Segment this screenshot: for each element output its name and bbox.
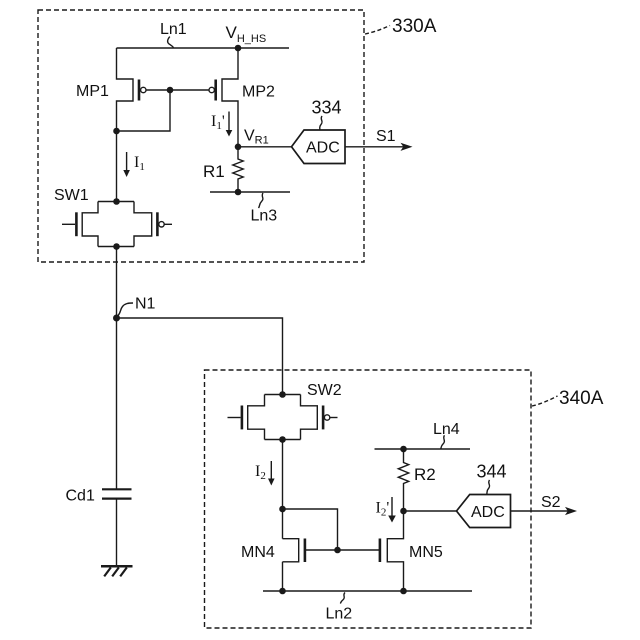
transistor MP1 source/drain xyxy=(117,48,134,131)
svg-text:R2: R2 xyxy=(414,465,436,484)
wire SW2 right gate lead xyxy=(330,417,338,419)
wire MN4-MN5 gate xyxy=(305,549,380,551)
svg-text:344: 344 xyxy=(477,462,507,482)
svg-text:VH_HS: VH_HS xyxy=(226,23,267,45)
current arrow I2' xyxy=(388,497,396,523)
svg-text:S1: S1 xyxy=(376,128,396,145)
node R1 to Ln3 junction xyxy=(235,189,240,194)
leader to Ln1 xyxy=(168,37,174,48)
switch SW1 body xyxy=(82,202,152,247)
node SW2 top junction xyxy=(280,392,285,397)
svg-text:SW2: SW2 xyxy=(307,382,342,399)
switch SW2 right gate bar xyxy=(322,406,325,430)
svg-text:340A: 340A xyxy=(559,388,604,409)
wire Ln1 bus xyxy=(117,47,290,49)
node V_H_HS junction xyxy=(235,45,240,50)
node N1 xyxy=(114,315,120,321)
leader to 340A label xyxy=(532,396,558,406)
svg-text:I1: I1 xyxy=(134,154,145,173)
wire Ln2 bus xyxy=(263,590,472,592)
resistor R1 xyxy=(233,147,243,192)
leader to 344 xyxy=(487,480,490,494)
node gate wire junction xyxy=(335,547,340,552)
transistor MP1 gate bar xyxy=(138,80,141,101)
wire MP1 drain to SW1 xyxy=(116,131,118,202)
transistor MN4 source/drain xyxy=(283,539,299,591)
transistor MP2 gate bar xyxy=(214,80,217,101)
transistor MP2 gate bubble xyxy=(209,87,214,92)
wire SW1 to node N1 xyxy=(116,247,118,319)
svg-text:Ln3: Ln3 xyxy=(251,208,278,225)
dashed block 330A xyxy=(38,10,364,262)
svg-text:ADC: ADC xyxy=(471,504,505,521)
svg-text:334: 334 xyxy=(312,98,342,118)
wire MP1 gate lead xyxy=(146,89,170,91)
wire SW1 right gate lead xyxy=(164,223,172,225)
wire SW1 left gate lead xyxy=(62,223,75,225)
svg-text:Ln4: Ln4 xyxy=(433,421,460,438)
switch SW2 body xyxy=(248,395,318,440)
ground xyxy=(101,566,133,576)
wire V_R1 to ADC xyxy=(238,146,292,148)
transistor MN4 gate bar xyxy=(304,539,307,563)
node R2/MN5/ADC junction xyxy=(401,508,406,513)
current arrow I1 xyxy=(123,152,130,177)
svg-text:Cd1: Cd1 xyxy=(66,488,95,505)
node MP1 drain junction xyxy=(114,128,119,133)
wire S2 output xyxy=(511,507,578,515)
svg-text:MP2: MP2 xyxy=(242,84,275,101)
wire MP2 gate lead xyxy=(170,89,209,91)
leader to Ln3 xyxy=(259,193,264,208)
svg-text:I1': I1' xyxy=(211,113,225,132)
switch SW2 left gate bar xyxy=(241,406,244,430)
resistor R2 xyxy=(398,449,408,511)
svg-text:I2': I2' xyxy=(376,500,390,519)
current arrow I1' xyxy=(226,112,233,137)
node MN4 drain junction xyxy=(280,506,285,511)
ADC U344 xyxy=(457,495,511,528)
wire N1 to Cd1 xyxy=(116,318,118,489)
wire N1 to SW2 xyxy=(117,318,283,395)
node SW1 bottom junction xyxy=(114,244,119,249)
svg-text:Ln2: Ln2 xyxy=(326,606,353,623)
wire SW2 to MN4 xyxy=(282,440,284,539)
leader to N1 xyxy=(118,303,133,316)
leader to 334 xyxy=(320,116,322,130)
svg-text:MN4: MN4 xyxy=(241,544,275,561)
leader to Ln4 xyxy=(441,435,445,448)
current arrow I2 xyxy=(268,461,275,486)
wire S1 output xyxy=(345,143,413,151)
wire SW2 left gate lead xyxy=(228,417,241,419)
wire Ln3 bus xyxy=(210,191,290,193)
transistor MP1 gate bubble xyxy=(141,87,146,92)
svg-text:ADC: ADC xyxy=(306,140,340,157)
svg-text:R1: R1 xyxy=(203,162,225,181)
svg-text:MP1: MP1 xyxy=(76,83,109,100)
svg-text:330A: 330A xyxy=(392,16,437,37)
transistor MN5 source/drain xyxy=(387,511,403,591)
wire Ln4 bus xyxy=(375,448,471,450)
ADC U334 xyxy=(292,130,346,164)
wire node to ADC xyxy=(404,510,458,512)
capacitor Cd1 xyxy=(102,489,132,498)
leader to 330A label xyxy=(365,26,390,35)
transistor MP2 source/drain xyxy=(222,48,238,147)
node V_R1 junction xyxy=(235,144,240,149)
transistor MN5 gate bar xyxy=(379,539,382,563)
node SW2 bottom junction xyxy=(280,437,285,442)
svg-text:Ln1: Ln1 xyxy=(160,21,187,38)
wire diode connection xyxy=(283,509,338,550)
node SW1 top junction xyxy=(114,199,119,204)
wire Cd1 to ground xyxy=(116,499,118,566)
node R2 to Ln4 junction xyxy=(401,446,406,451)
dashed block 340A xyxy=(205,370,532,628)
leader to Ln2 xyxy=(340,593,345,604)
node MN5 source to Ln2 xyxy=(401,588,406,593)
svg-text:S2: S2 xyxy=(541,494,561,511)
node gate junction xyxy=(167,87,172,92)
node MN4 source to Ln2 xyxy=(280,588,285,593)
svg-text:N1: N1 xyxy=(135,296,156,313)
switch SW1 right gate bar xyxy=(156,212,159,236)
svg-text:SW1: SW1 xyxy=(54,187,89,204)
switch SW1 right gate bubble xyxy=(159,222,164,227)
svg-text:VR1: VR1 xyxy=(244,128,269,147)
switch SW2 right gate bubble xyxy=(324,415,329,420)
switch SW1 left gate bar xyxy=(75,212,78,236)
svg-text:I2: I2 xyxy=(255,463,266,482)
svg-text:MN5: MN5 xyxy=(409,544,443,561)
wire gate to MP1 drain xyxy=(117,90,170,131)
